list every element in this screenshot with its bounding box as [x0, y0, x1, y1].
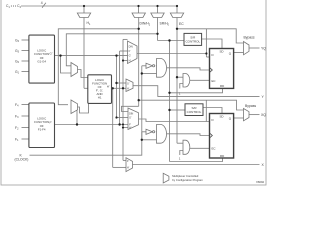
- svg-text:YQ: YQ: [261, 46, 266, 50]
- svg-text:D: D: [212, 53, 214, 57]
- svg-text:G': G': [50, 52, 53, 56]
- svg-text:F1-F4: F1-F4: [38, 127, 46, 131]
- svg-text:CONTROL: CONTROL: [187, 110, 202, 114]
- svg-text:4: 4: [41, 1, 43, 5]
- svg-text:EC: EC: [212, 79, 216, 83]
- svg-text:SD: SD: [220, 115, 224, 119]
- svg-text:H': H': [107, 84, 110, 88]
- svg-text:EC: EC: [179, 22, 184, 26]
- svg-text:DIN: DIN: [129, 46, 133, 49]
- svg-text:RD: RD: [220, 154, 224, 158]
- svg-text:(CLOCK): (CLOCK): [15, 158, 29, 162]
- svg-text:G1-G4: G1-G4: [37, 59, 46, 63]
- svg-text:Bypass: Bypass: [244, 36, 255, 40]
- svg-text:by Configuration Program: by Configuration Program: [172, 178, 203, 182]
- svg-text:X6692: X6692: [256, 180, 265, 184]
- svg-text:H1: H1: [98, 95, 102, 99]
- svg-text:DIN: DIN: [129, 113, 133, 116]
- svg-text:CONTROL: CONTROL: [185, 40, 200, 44]
- svg-text:RD: RD: [220, 84, 224, 88]
- svg-text:D: D: [212, 118, 214, 122]
- svg-text:SD: SD: [220, 50, 224, 54]
- svg-text:XQ: XQ: [261, 113, 266, 117]
- svg-text:EC: EC: [212, 147, 216, 151]
- svg-text:Bypass: Bypass: [245, 104, 256, 108]
- svg-text:Multiplexer Controlled: Multiplexer Controlled: [172, 174, 198, 178]
